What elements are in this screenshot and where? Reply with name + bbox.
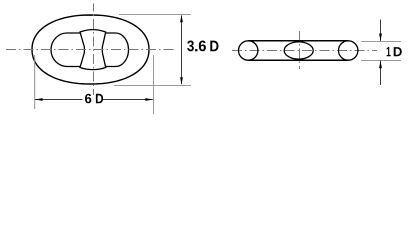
horizontal center line (side view) bbox=[232, 50, 377, 52]
chain link inner contour bbox=[51, 33, 129, 67]
chain link outer contour bbox=[32, 15, 149, 84]
stud bbox=[80, 30, 106, 70]
side view right bar circle bbox=[339, 41, 358, 60]
label 1 D bbox=[387, 47, 402, 56]
horizontal center line (front view) bbox=[6, 49, 177, 51]
extension line bottom (3.6 D) bbox=[114, 85, 191, 87]
side view left bar circle bbox=[239, 41, 258, 60]
extension line top (3.6 D) bbox=[119, 14, 191, 16]
vertical center line (side view stud) bbox=[299, 31, 301, 69]
dimension line 6 D bbox=[35, 99, 83, 101]
extension line left (6 D) bbox=[34, 55, 36, 109]
label 6 D bbox=[85, 94, 103, 104]
extension line bottom (1 D) bbox=[361, 60, 401, 62]
dimension arrow top (1 D) bbox=[380, 20, 382, 41]
extension line top (1 D) bbox=[361, 41, 401, 43]
extension line right (6 D) bbox=[153, 55, 155, 114]
vertical center line (front view) bbox=[93, 4, 95, 96]
side view bottom tangent bbox=[248, 59, 348, 61]
side view stud ellipse bbox=[284, 42, 313, 59]
dimension line 3.6 D bbox=[181, 16, 183, 85]
label 3.6 D bbox=[187, 40, 218, 51]
dimension arrow bottom (1 D) bbox=[380, 61, 382, 85]
side view top tangent bbox=[248, 40, 348, 42]
